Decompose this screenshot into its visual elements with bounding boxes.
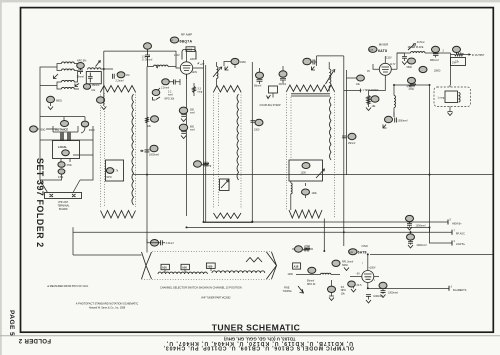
svg-text:FOLDER 2: FOLDER 2 <box>18 337 51 344</box>
svg-text:N030: N030 <box>342 264 348 267</box>
coupling strap <box>260 86 282 107</box>
wire LOW B+ bus <box>187 227 453 243</box>
coil slug box in block A <box>106 160 124 181</box>
wire vertical x186.5 <box>186 75 188 217</box>
tuner block E oscillator coil assembly <box>287 85 335 219</box>
svg-text:VHF TUNER PART #C2082: VHF TUNER PART #C2082 <box>201 296 231 299</box>
tuner block A rf coil assembly <box>101 86 136 219</box>
wire long horizontal mid <box>134 174 493 176</box>
wire bottom right long <box>370 253 493 255</box>
terminal 4 low B+ <box>452 240 466 246</box>
svg-text:300Ω: 300Ω <box>40 129 46 132</box>
bypass 1000mmf on x147 <box>140 145 159 157</box>
svg-text:220V: 220V <box>190 58 196 61</box>
svg-text:RF AGC: RF AGC <box>456 233 465 236</box>
terminal 5 high B+ <box>448 219 462 226</box>
svg-text:5600: 5600 <box>407 66 413 69</box>
terminal 3 filaments <box>449 285 467 292</box>
bypass cap high B+ <box>406 215 426 230</box>
svg-text:LOCAL: LOCAL <box>58 145 67 149</box>
wire vertical x324.3 <box>323 219 325 252</box>
svg-text:132V: 132V <box>386 56 392 59</box>
svg-text:mmf: mmf <box>190 129 195 132</box>
svg-text:6AT8: 6AT8 <box>378 49 387 53</box>
osc slug box in block E <box>289 160 324 181</box>
cap C19 3mmf <box>332 260 353 270</box>
capacitor C5 <box>161 79 180 90</box>
switch contact row <box>158 272 207 274</box>
cap C? 680mmf <box>430 46 440 61</box>
svg-text:meg: meg <box>198 91 203 94</box>
svg-text:100k: 100k <box>312 192 318 195</box>
resistor 4700 <box>409 84 416 87</box>
grid caps 500mmf <box>179 107 195 121</box>
wire vertical x450.5 <box>450 57 452 85</box>
mixer tube labels <box>369 43 390 53</box>
osc padder coil below block E <box>291 181 318 210</box>
cap C12 39mmf <box>278 66 287 86</box>
svg-text:2K 5: 2K 5 <box>357 284 363 287</box>
svg-text:2.2mmf: 2.2mmf <box>116 80 124 83</box>
svg-text:4700: 4700 <box>407 86 413 89</box>
svg-text:1M: 1M <box>126 74 129 77</box>
resistor 1 meg block C <box>194 161 212 168</box>
wire vertical x429.5 <box>429 85 431 232</box>
svg-text:MIXER: MIXER <box>379 43 389 47</box>
svg-text:LOW B+: LOW B+ <box>456 243 466 246</box>
svg-text:DISTANCE: DISTANCE <box>55 128 68 132</box>
page edge shading left <box>0 0 2 355</box>
svg-text:117V: 117V <box>390 63 396 66</box>
svg-text:124V: 124V <box>192 71 198 74</box>
agc resistor 10k <box>146 116 159 128</box>
svg-text:1200: 1200 <box>301 172 307 175</box>
FM trap L2 <box>75 61 101 92</box>
bypass cap 132V <box>397 53 407 65</box>
svg-text:1N60: 1N60 <box>240 61 246 64</box>
cathode cap 1000mmf gnd <box>366 295 384 304</box>
cap C20 1000mmf <box>379 282 398 297</box>
bypass cap low B+ <box>407 231 427 248</box>
svg-text:NPO 3k: NPO 3k <box>307 283 316 286</box>
svg-text:6BQ7A: 6BQ7A <box>180 40 193 44</box>
local/distance switch S1 <box>40 121 93 181</box>
rf grid coil <box>147 65 176 92</box>
svg-text:.05mmf: .05mmf <box>91 84 99 87</box>
svg-text:CHANNEL SELECTOR SWITCH SHOWN: CHANNEL SELECTOR SWITCH SHOWN IN CHANNEL… <box>160 285 242 289</box>
page edge shading top <box>0 0 500 2</box>
svg-text:7.7k: 7.7k <box>114 170 119 173</box>
svg-text:V2B: V2B <box>349 252 354 254</box>
svg-text:A PHOTOFACT STANDARD NOTATI: A PHOTOFACT STANDARD NOTATION SCHEMATIC <box>76 302 139 306</box>
wire filaments <box>368 288 449 290</box>
resistor R9 2K <box>348 281 362 292</box>
svg-text:OSC: OSC <box>362 244 369 248</box>
junction dots mixer feed <box>393 84 395 86</box>
svg-text:470k: 470k <box>58 176 64 179</box>
svg-text:COUPLING STRAP: COUPLING STRAP <box>260 104 282 107</box>
svg-text:6AT8: 6AT8 <box>358 251 367 255</box>
svg-text:IF OUTPUT: IF OUTPUT <box>472 54 485 57</box>
svg-text:44.5mc: 44.5mc <box>417 41 426 44</box>
wire HIGH B+ bus <box>204 220 448 223</box>
svg-text:−5V: −5V <box>356 272 361 275</box>
svg-text:1000mmf: 1000mmf <box>373 295 383 298</box>
rf amp V1 labels <box>170 32 192 43</box>
tube V2B <box>350 254 379 288</box>
osc tube labels <box>349 244 369 255</box>
svg-text:H20: H20 <box>208 264 213 268</box>
channel selector strip <box>142 251 277 279</box>
svg-text:★ MEASURED FROM PIN 5 OF V101.: ★ MEASURED FROM PIN 5 OF V101. <box>47 285 89 288</box>
svg-text:RF AMP: RF AMP <box>181 32 192 36</box>
svg-text:470k: 470k <box>67 164 73 167</box>
wire vertical x343.8 <box>343 56 345 246</box>
svg-text:3.3mmf: 3.3mmf <box>166 242 174 245</box>
svg-text:1000: 1000 <box>288 273 294 276</box>
svg-text:1500: 1500 <box>254 129 260 132</box>
svg-text:1000mmf: 1000mmf <box>416 225 426 228</box>
svg-text:+100V: +100V <box>369 266 376 269</box>
A18 wafer <box>288 263 301 276</box>
wire vertical x189.5 <box>205 65 207 222</box>
separator line below frame <box>0 335 500 337</box>
tuner block C mixer coil assembly <box>214 86 242 219</box>
resistor R5 18k <box>366 91 379 111</box>
wire box C bottom <box>204 222 253 224</box>
cathode resistor R3 <box>152 88 175 101</box>
svg-text:.5-.05mmf: .5-.05mmf <box>142 59 153 62</box>
svg-text:OLYMPIC MODELS CB106, U, CB109: OLYMPIC MODELS CB106, U, CB109, U, CD110… <box>163 345 354 351</box>
resistor 3.3 meg <box>193 83 203 96</box>
svg-text:A50: A50 <box>182 266 187 270</box>
svg-text:mmf: mmf <box>168 94 173 97</box>
svg-text:A20: A20 <box>162 266 167 270</box>
svg-text:1000mmf: 1000mmf <box>416 244 426 247</box>
svg-text:FOLDER 2: FOLDER 2 <box>35 200 45 248</box>
svg-text:NPO 10k: NPO 10k <box>165 98 176 101</box>
wire vertical x203.5 <box>203 60 205 223</box>
cap 25mmf mid <box>342 133 356 145</box>
svg-text:1000mmf: 1000mmf <box>398 120 408 123</box>
svg-text:TUNER SCHEMATIC: TUNER SCHEMATIC <box>212 322 300 332</box>
cap C14 3.3mmf <box>147 239 174 246</box>
cap 1500 on mixer grid line <box>251 119 264 131</box>
coil L8 <box>369 85 396 112</box>
wafer labels <box>161 264 169 269</box>
svg-text:124V: 124V <box>174 54 180 57</box>
wire to strip left <box>73 254 142 256</box>
wire vertical x252.3 <box>251 62 253 223</box>
tube V2A <box>367 56 397 91</box>
mixer plate circuit <box>397 41 451 69</box>
osc section coil L5 <box>213 58 246 85</box>
svg-text:FILAMENTS: FILAMENTS <box>453 289 467 292</box>
grid caps 800mmf <box>179 124 195 138</box>
svg-text:680mmf: 680mmf <box>430 59 439 62</box>
VHF ant terminal board <box>40 155 93 255</box>
svg-text:mmf: mmf <box>190 112 195 115</box>
svg-text:25mmf: 25mmf <box>348 142 356 145</box>
svg-text:.39mmf: .39mmf <box>278 83 286 86</box>
resistor R2 ant load <box>101 51 176 85</box>
wire vertical x147 <box>146 92 148 253</box>
mixer trimmer box in block C <box>220 179 230 191</box>
cap C18 6.8 <box>328 280 347 301</box>
wire mixer B+ feed <box>394 84 430 86</box>
svg-text:1 meg: 1 meg <box>438 97 445 100</box>
svg-text:470Ω: 470Ω <box>304 245 310 248</box>
capacitor C4 input <box>142 43 153 67</box>
svg-text:TUNING: TUNING <box>283 290 292 293</box>
cap C13 osc top <box>303 56 344 70</box>
chassis arrow <box>54 74 59 79</box>
balun transformer T1 <box>40 62 79 125</box>
svg-text:39mmf: 39mmf <box>77 76 85 79</box>
svg-text:0V: 0V <box>367 70 370 73</box>
svg-text:1000mmf: 1000mmf <box>388 292 398 295</box>
tube V1 6BQ7A <box>174 47 205 79</box>
svg-text:10000: 10000 <box>434 70 441 73</box>
cap 1000mmf mixer <box>383 112 408 128</box>
terminal 7 rf agc <box>452 229 465 235</box>
svg-text:300Ω: 300Ω <box>89 129 95 132</box>
svg-text:V2A: V2A <box>369 49 374 52</box>
resistor R6 22k IF output <box>443 46 486 65</box>
svg-text:HIGH B+: HIGH B+ <box>452 222 462 225</box>
resistor C17 470 <box>292 245 313 252</box>
cap C11 56mmf <box>254 68 264 87</box>
svg-text:NPO: NPO <box>107 176 112 179</box>
fine tuning cap <box>283 267 341 293</box>
svg-text:1000mmf: 1000mmf <box>149 154 159 157</box>
svg-text:BOARD: BOARD <box>59 208 68 211</box>
svg-text:56mmf: 56mmf <box>254 84 262 87</box>
svg-text:6800: 6800 <box>187 48 193 51</box>
svg-text:Howard W. Sams & Co., Inc. 195: Howard W. Sams & Co., Inc. 1958 <box>89 307 126 310</box>
svg-text:NPO 5%: NPO 5% <box>77 60 87 63</box>
svg-text:A18: A18 <box>294 265 299 269</box>
mixer cathode parts <box>407 58 442 89</box>
svg-text:+2V: +2V <box>200 63 205 66</box>
svg-text:680Ω: 680Ω <box>56 100 62 103</box>
wire RF AGC bus <box>73 231 452 233</box>
resistor 680 mid <box>97 86 107 110</box>
sound trap dashed box <box>434 85 471 116</box>
svg-text:meg: meg <box>207 164 212 167</box>
resistor 680 left <box>47 96 62 109</box>
capacitor C1 NPO <box>77 60 88 79</box>
test point 1 <box>344 89 379 93</box>
wire vertical x346.5 <box>346 128 348 175</box>
antenna input terminals <box>30 117 95 140</box>
svg-text:2.2mmf: 2.2mmf <box>161 87 169 90</box>
svg-text:PAGE 5: PAGE 5 <box>8 310 15 336</box>
resistor 10k osc inj <box>347 70 365 128</box>
osc coil L7 <box>326 62 335 92</box>
